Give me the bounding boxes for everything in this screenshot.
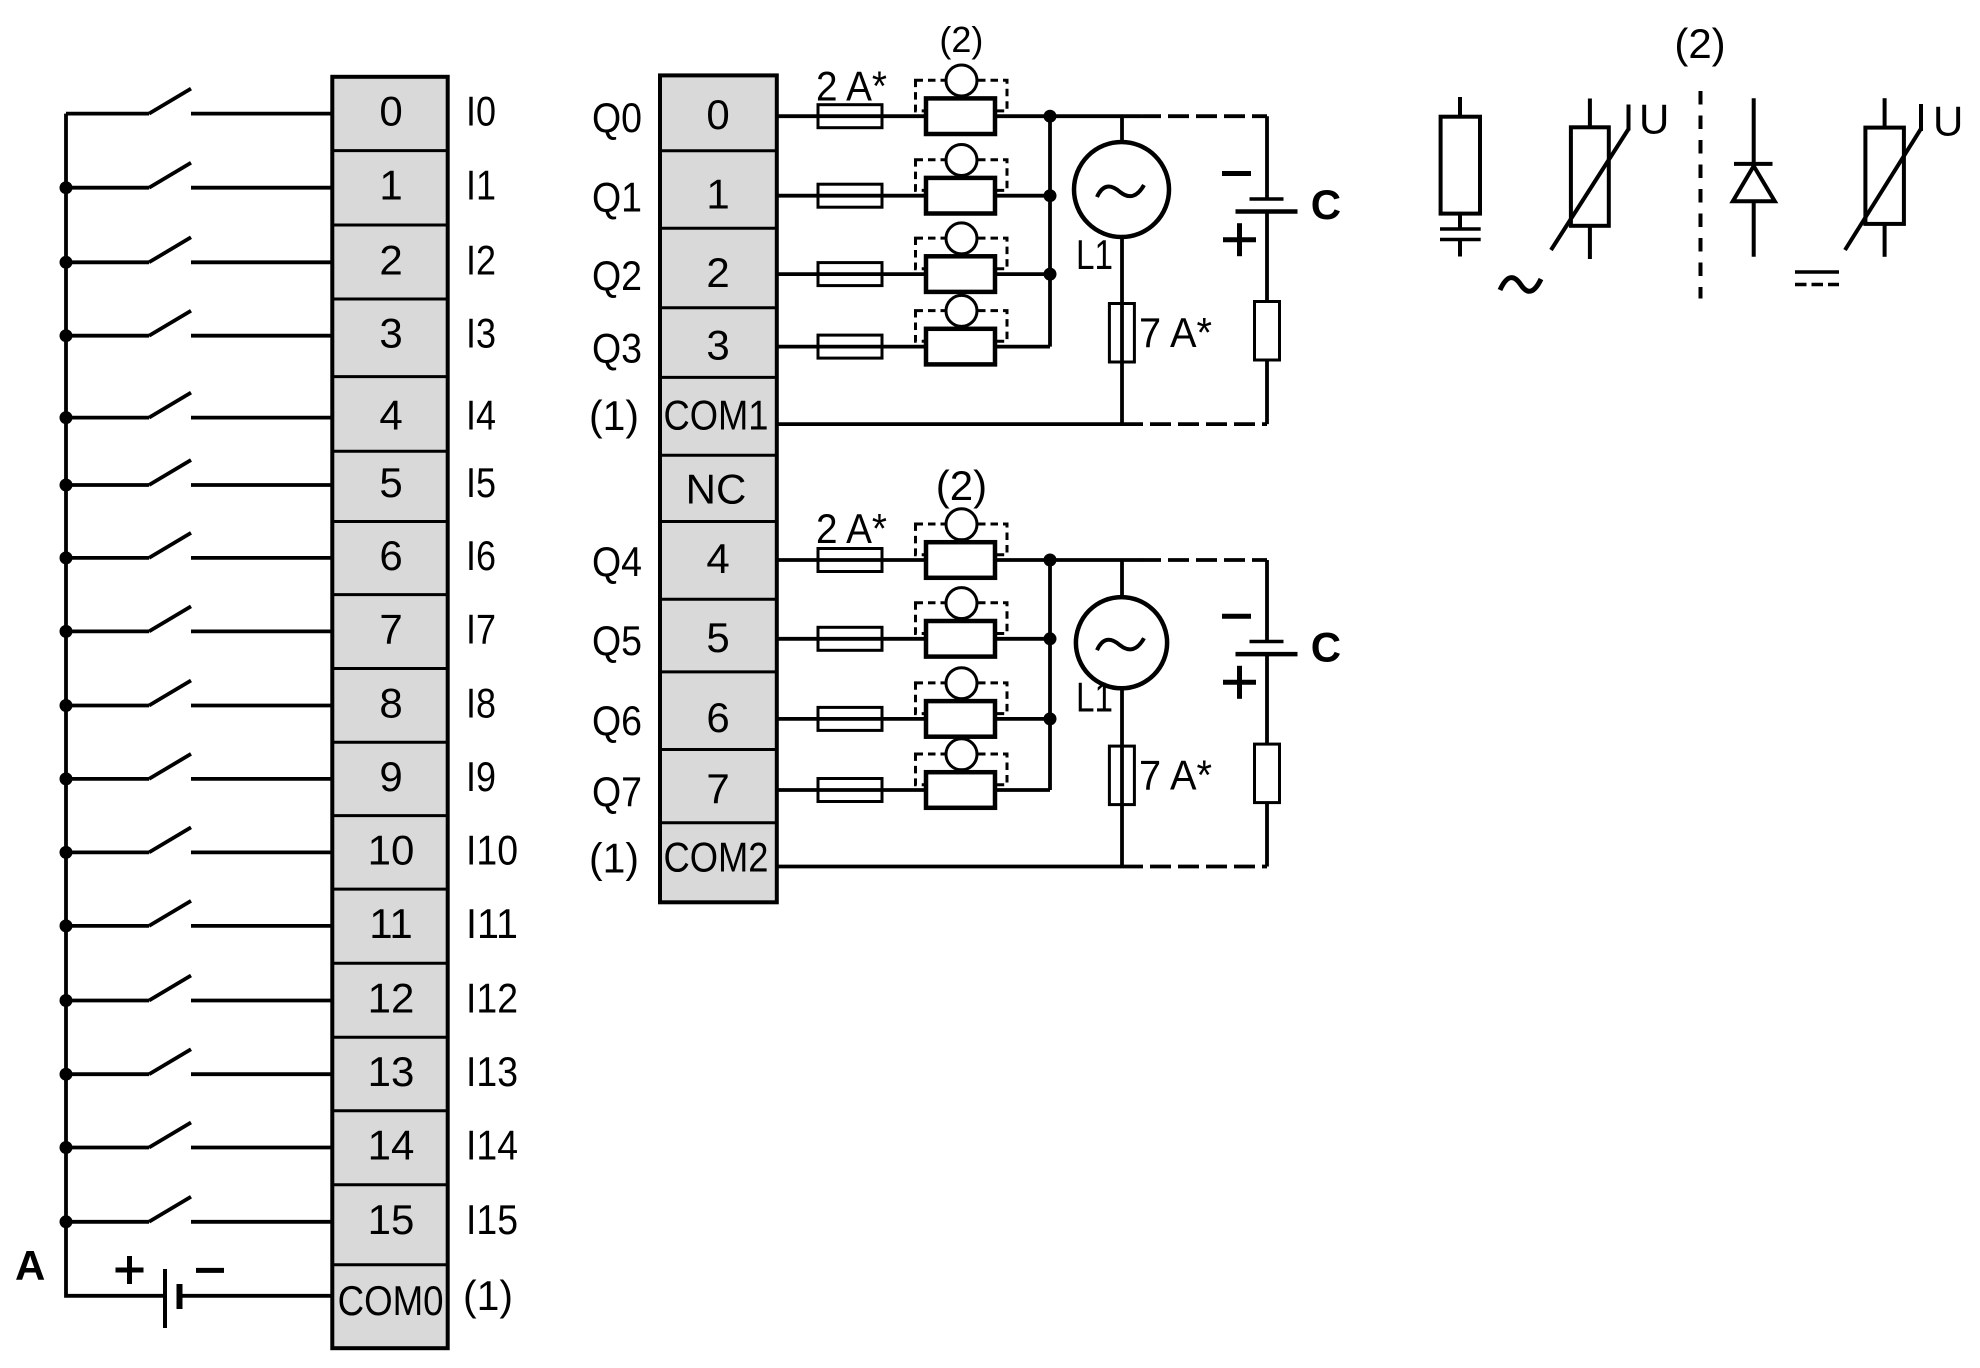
DC source C short plate group 2: [1250, 640, 1284, 644]
diode: vertical lead: [1752, 98, 1756, 257]
output terminal strip (Q0..Q7, COM1, COM2, NC): [660, 75, 777, 902]
svg-text:Q4: Q4: [592, 538, 642, 585]
fuse 7A group 1: [1109, 304, 1134, 363]
svg-text:5: 5: [706, 614, 729, 661]
diode: triangle: [1733, 166, 1775, 201]
svg-text:COM0: COM0: [338, 1277, 444, 1324]
svg-text:(1): (1): [463, 1272, 513, 1319]
load rectangle row Q5: [926, 621, 995, 657]
switch contact row I11: [149, 901, 191, 926]
plus sign C group 1: [1223, 223, 1256, 256]
wire row I12: [66, 999, 334, 1003]
svg-text:7: 7: [379, 605, 402, 652]
AC source L1 group 2: [1076, 597, 1167, 688]
svg-text:10: 10: [368, 826, 415, 873]
lamp circle row Q7: [946, 739, 977, 770]
fuse 2A row Q1: [818, 184, 882, 207]
svg-text:COM2: COM2: [664, 834, 769, 881]
fuse DC branch group 1: [1255, 302, 1280, 361]
AC source L1 group 1: [1074, 142, 1169, 237]
svg-text:(2): (2): [1674, 20, 1725, 67]
svg-text:3: 3: [379, 310, 402, 357]
wire row I9: [66, 777, 334, 781]
varistor 2: diagonal: [1845, 129, 1921, 250]
output junction bus group 2: [1048, 560, 1052, 790]
wire row I6: [66, 556, 334, 560]
svg-text:C: C: [1311, 624, 1341, 671]
protection dashed box row Q1: [916, 160, 1008, 191]
svg-text:Q2: Q2: [592, 252, 642, 299]
switch contact row I7: [149, 606, 191, 631]
wire row I0: [66, 112, 334, 116]
diode: cathode bar: [1734, 162, 1773, 166]
svg-text:(1): (1): [589, 392, 639, 439]
junction dot row I15: [60, 1215, 73, 1228]
switch contact row I6: [149, 533, 191, 558]
varistor 2: bottom lead: [1883, 224, 1887, 257]
svg-text:1: 1: [379, 162, 402, 209]
junction dot Q6: [1044, 712, 1057, 725]
svg-text:1: 1: [706, 171, 729, 218]
dashed return wire group 1: [1122, 422, 1267, 426]
svg-text:4: 4: [379, 392, 402, 439]
svg-text:Q5: Q5: [592, 617, 642, 664]
svg-text:COM1: COM1: [664, 392, 769, 439]
DC source C long plate group 2: [1236, 652, 1298, 657]
svg-text:Q7: Q7: [592, 768, 642, 815]
svg-text:6: 6: [706, 694, 729, 741]
svg-text:2: 2: [379, 236, 402, 283]
load rectangle row Q7: [926, 772, 995, 808]
svg-text:I0: I0: [466, 88, 496, 135]
RC snubber: capacitor plate 2: [1440, 238, 1481, 241]
wire battery to COM0: [180, 1294, 335, 1298]
wire row Q1: [777, 194, 1050, 198]
svg-text:7: 7: [706, 765, 729, 812]
fuse 2A row Q3: [818, 335, 882, 358]
fuse 2A row Q5: [818, 627, 882, 650]
dashed wire to optional DC source group 1: [1140, 114, 1267, 118]
junction dot Q2: [1044, 268, 1057, 281]
svg-text:2 A*: 2 A*: [816, 62, 887, 109]
lamp circle row Q6: [946, 668, 977, 699]
wire top feeder group 1: [1050, 114, 1140, 118]
DC symbol: solid bar: [1795, 270, 1839, 274]
svg-text:7 A*: 7 A*: [1139, 752, 1212, 799]
junction dot row I6: [60, 551, 73, 564]
switch contact row I0: [149, 89, 191, 114]
svg-text:(1): (1): [589, 835, 639, 882]
wire row I10: [66, 851, 334, 855]
output junction bus group 1: [1048, 116, 1052, 346]
protection dashed box row Q3: [916, 311, 1008, 342]
wire top feeder group 2: [1050, 558, 1140, 562]
svg-text:NC: NC: [686, 465, 747, 512]
minus sign battery A: [196, 1268, 224, 1273]
junction dot row I11: [60, 919, 73, 932]
varistor 2: diagonal end hook: [1919, 104, 1923, 131]
AC symbol (tilde): [1500, 278, 1541, 292]
fuse 7A group 2: [1109, 746, 1134, 805]
junction dot row I12: [60, 994, 73, 1007]
junction dot Q4: [1044, 554, 1057, 567]
wire DC source branch lower group 2: [1265, 654, 1269, 866]
switch contact row I13: [149, 1049, 191, 1074]
svg-text:U: U: [1639, 96, 1669, 143]
protection dashed box row Q7: [916, 754, 1008, 785]
minus sign C group 1: [1222, 171, 1251, 176]
svg-text:Q6: Q6: [592, 697, 642, 744]
protection dashed box row Q5: [916, 603, 1008, 634]
wire row Q5: [777, 637, 1050, 641]
svg-text:6: 6: [379, 532, 402, 579]
svg-text:3: 3: [706, 322, 729, 369]
junction dot row I4: [60, 411, 73, 424]
wire DC source branch upper group 2: [1265, 560, 1269, 642]
svg-text:I4: I4: [466, 392, 496, 439]
svg-text:I9: I9: [466, 753, 496, 800]
svg-text:I12: I12: [466, 975, 518, 1022]
switch contact row I3: [149, 311, 191, 336]
svg-text:13: 13: [368, 1048, 415, 1095]
input terminal strip (I0..I15, COM0): [332, 77, 447, 1348]
protection dashed box row Q4: [916, 524, 1008, 555]
RC snubber: middle lead: [1458, 214, 1462, 229]
wire row Q2: [777, 272, 1050, 276]
svg-text:Q3: Q3: [592, 325, 642, 372]
varistor 2: body: [1865, 128, 1904, 224]
svg-text:I6: I6: [466, 532, 496, 579]
svg-text:I13: I13: [466, 1048, 518, 1095]
wire row Q7: [777, 788, 1050, 792]
switch contact row I14: [149, 1123, 191, 1148]
fuse 2A row Q4: [818, 549, 882, 572]
wire COM1 return group 1: [777, 422, 1122, 426]
svg-text:A: A: [15, 1242, 45, 1289]
protection dashed box row Q0: [916, 80, 1008, 111]
svg-text:I1: I1: [466, 162, 496, 209]
dashed wire to optional DC source group 2: [1140, 558, 1267, 562]
junction dot row I8: [60, 699, 73, 712]
wire row I3: [66, 334, 334, 338]
fuse 2A row Q6: [818, 707, 882, 730]
svg-text:I11: I11: [466, 900, 518, 947]
svg-text:4: 4: [706, 535, 729, 582]
RC snubber: top lead: [1458, 97, 1462, 117]
wire row I13: [66, 1072, 334, 1076]
junction dot Q0: [1044, 110, 1057, 123]
switch contact row I12: [149, 976, 191, 1001]
svg-text:8: 8: [379, 680, 402, 727]
svg-text:9: 9: [379, 753, 402, 800]
junction dot row I3: [60, 329, 73, 342]
wire row I1: [66, 186, 334, 190]
junction dot row I9: [60, 772, 73, 785]
switch contact row I15: [149, 1197, 191, 1222]
load rectangle row Q6: [926, 701, 995, 737]
svg-text:11: 11: [369, 900, 413, 947]
protection dashed box row Q2: [916, 238, 1008, 269]
varistor 1: top lead: [1588, 99, 1592, 128]
wire row I14: [66, 1146, 334, 1150]
lamp circle row Q1: [946, 145, 977, 176]
svg-text:I14: I14: [466, 1122, 518, 1169]
wire L1 bottom stub group 1: [1120, 237, 1124, 424]
wire row I4: [66, 416, 334, 420]
legend dashed separator: [1699, 91, 1703, 299]
svg-text:2 A*: 2 A*: [816, 505, 887, 552]
DC source C short plate group 1: [1250, 197, 1284, 201]
switch contact row I9: [149, 754, 191, 779]
svg-text:I3: I3: [466, 310, 496, 357]
fuse DC branch group 2: [1255, 744, 1280, 803]
fuse 2A row Q2: [818, 263, 882, 286]
input common bus wire: [66, 114, 165, 1296]
svg-text:7 A*: 7 A*: [1139, 309, 1212, 356]
wire L1 bottom stub group 2: [1120, 688, 1124, 866]
load rectangle row Q2: [926, 256, 995, 292]
lamp circle row Q2: [946, 223, 977, 254]
AC sine symbol group 1: [1097, 185, 1144, 197]
wire row Q6: [777, 717, 1050, 721]
svg-text:14: 14: [368, 1122, 415, 1169]
svg-text:I5: I5: [466, 459, 496, 506]
varistor 2: top lead: [1883, 98, 1887, 127]
RC snubber: capacitor plate 1: [1440, 227, 1481, 230]
svg-text:I7: I7: [466, 605, 496, 652]
junction dot Q1: [1044, 189, 1057, 202]
svg-text:0: 0: [706, 91, 729, 138]
wire row Q4: [777, 558, 1050, 562]
svg-text:L1: L1: [1076, 231, 1113, 278]
wire row I11: [66, 924, 334, 928]
svg-text:0: 0: [379, 88, 402, 135]
wire DC source branch lower group 1: [1265, 212, 1269, 425]
wire L1 top stub group 1: [1120, 116, 1124, 142]
minus sign C group 2: [1222, 614, 1251, 619]
battery A negative plate: [177, 1284, 183, 1309]
lamp circle row Q0: [946, 65, 977, 96]
switch contact row I1: [149, 163, 191, 188]
svg-text:2: 2: [706, 249, 729, 296]
svg-text:(2): (2): [936, 462, 987, 509]
svg-text:15: 15: [368, 1196, 415, 1243]
switch contact row I2: [149, 237, 191, 262]
wire L1 top stub group 2: [1120, 560, 1124, 597]
svg-text:L1: L1: [1076, 674, 1113, 721]
wire row I2: [66, 260, 334, 264]
varistor 1: diagonal: [1551, 129, 1629, 250]
junction dot row I1: [60, 181, 73, 194]
svg-text:U: U: [1933, 98, 1963, 145]
svg-text:Q1: Q1: [592, 174, 642, 221]
switch contact row I10: [149, 827, 191, 852]
DC source C long plate group 1: [1236, 209, 1298, 214]
load rectangle row Q4: [926, 542, 995, 578]
fuse 2A row Q7: [818, 779, 882, 802]
DC symbol: dashed bar: [1795, 283, 1839, 287]
svg-text:5: 5: [379, 459, 402, 506]
svg-text:I10: I10: [466, 826, 518, 873]
wire DC source branch upper group 1: [1265, 116, 1269, 199]
dashed return wire group 2: [1122, 865, 1267, 869]
svg-text:I2: I2: [466, 236, 496, 283]
junction dot row I5: [60, 479, 73, 492]
junction dot row I10: [60, 846, 73, 859]
lamp circle row Q4: [946, 509, 977, 540]
wire row Q3: [777, 345, 1050, 349]
lamp circle row Q3: [946, 295, 977, 326]
protection dashed box row Q6: [916, 683, 1008, 714]
switch contact row I4: [149, 393, 191, 418]
RC snubber: resistor body: [1441, 117, 1480, 214]
junction dot Q5: [1044, 632, 1057, 645]
switch contact row I5: [149, 460, 191, 485]
junction dot row I2: [60, 256, 73, 269]
wire row I15: [66, 1220, 334, 1224]
svg-text:C: C: [1311, 181, 1341, 228]
switch contact row I8: [149, 681, 191, 706]
load rectangle row Q0: [926, 98, 995, 134]
svg-text:12: 12: [368, 975, 415, 1022]
varistor 1: diagonal end hook: [1627, 105, 1631, 131]
wire row I8: [66, 704, 334, 708]
svg-text:I15: I15: [466, 1196, 518, 1243]
junction dot row I7: [60, 625, 73, 638]
varistor 1: body: [1571, 127, 1609, 226]
junction dot row I14: [60, 1141, 73, 1154]
battery A positive plate: [163, 1269, 167, 1328]
lamp circle row Q5: [946, 588, 977, 619]
wire row I7: [66, 630, 334, 634]
load rectangle row Q3: [926, 329, 995, 365]
RC snubber: bottom lead: [1458, 240, 1462, 257]
varistor 1: bottom lead: [1588, 226, 1592, 259]
wire row I5: [66, 483, 334, 487]
AC sine symbol group 2: [1097, 638, 1144, 650]
fuse 2A row Q0: [818, 105, 882, 128]
plus sign C group 2: [1223, 666, 1256, 699]
wire row Q0: [777, 114, 1050, 118]
svg-text:Q0: Q0: [592, 94, 642, 141]
wire COM2 return group 2: [777, 865, 1122, 869]
svg-text:I8: I8: [466, 680, 496, 727]
load rectangle row Q1: [926, 178, 995, 214]
junction dot row I13: [60, 1068, 73, 1081]
plus sign battery A: [116, 1256, 144, 1284]
svg-text:(2): (2): [939, 19, 983, 60]
